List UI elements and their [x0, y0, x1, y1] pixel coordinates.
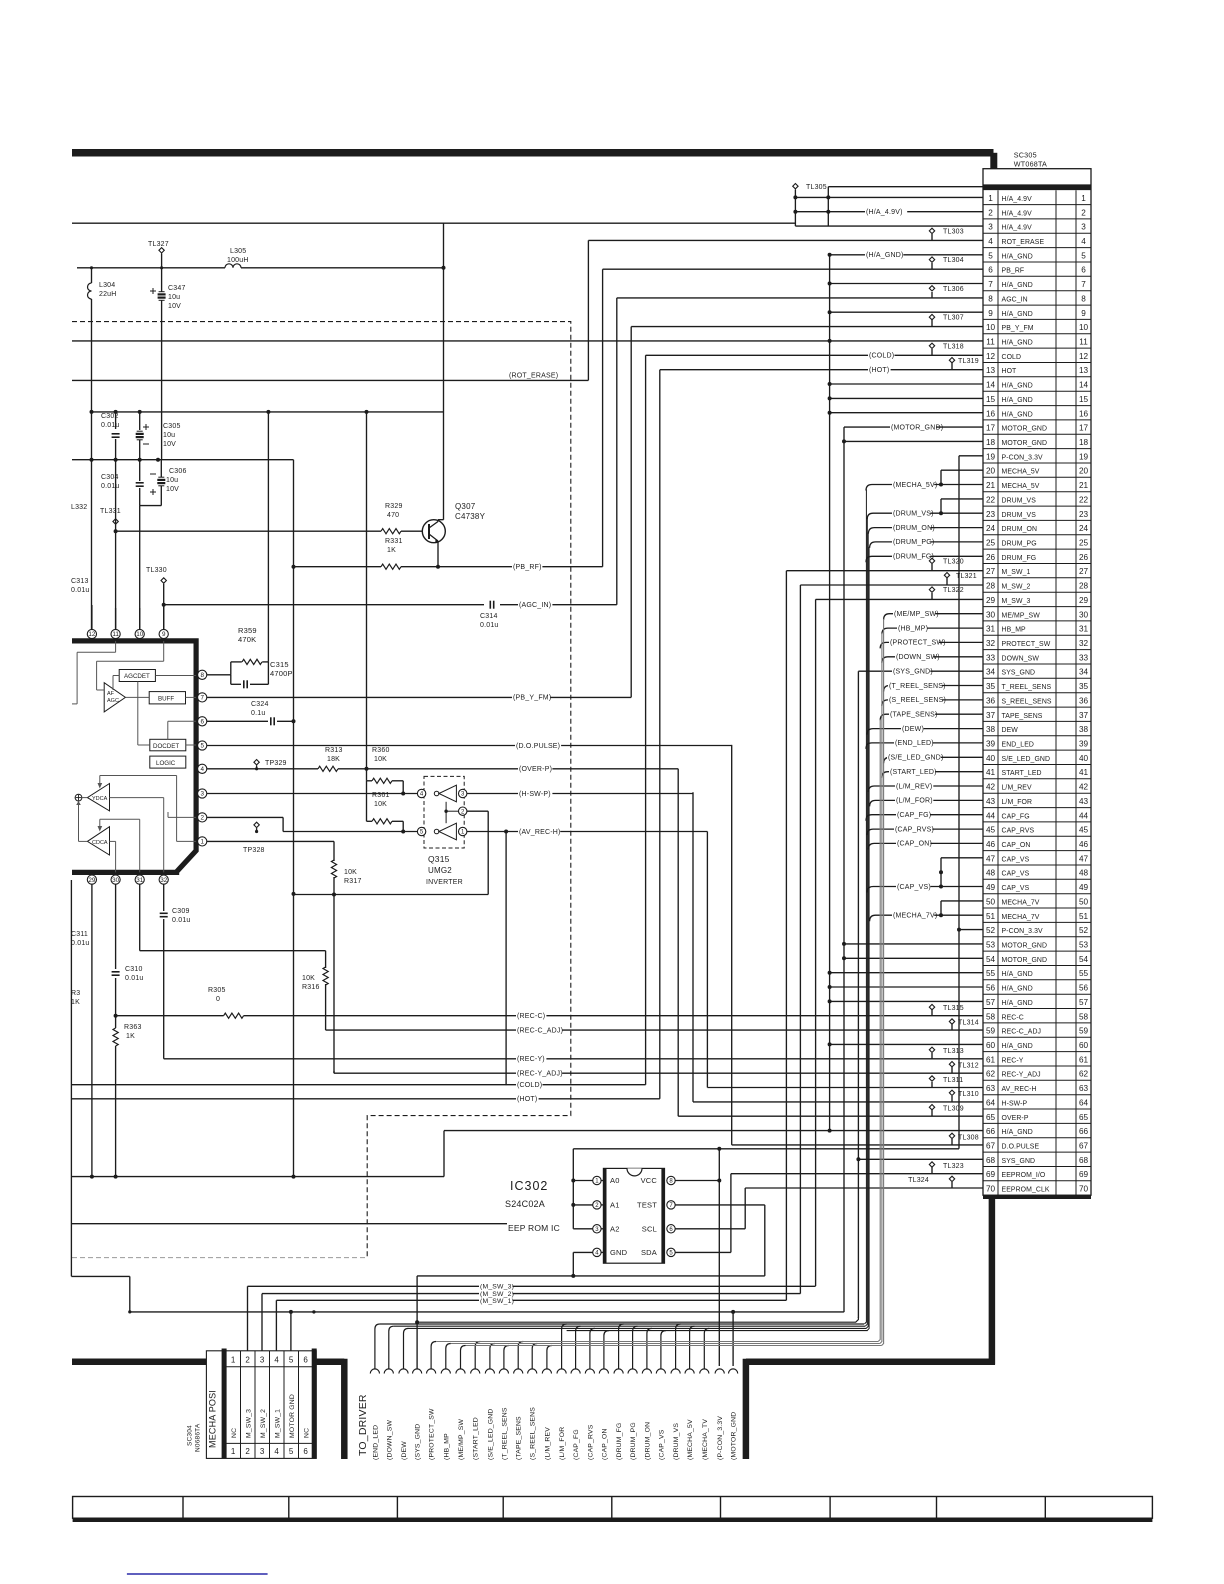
TO_DRIVER terminal DEW: [399, 1369, 408, 1374]
svg-text:(TAPE_SENS: (TAPE_SENS: [516, 1416, 523, 1460]
page border right vertical (below connector): [989, 1195, 996, 1365]
wire pin31 to R316: [139, 905, 141, 951]
svg-text:1: 1: [200, 839, 204, 846]
svg-text:7: 7: [200, 695, 204, 702]
svg-text:65: 65: [1079, 1113, 1089, 1122]
svg-text:L304: L304: [99, 282, 115, 289]
test point TL308: [949, 1133, 954, 1138]
wire pin 24 DRUM_ON: [868, 528, 983, 534]
svg-text:0.01u: 0.01u: [71, 940, 90, 947]
svg-text:H/A_4.9V: H/A_4.9V: [1002, 225, 1033, 232]
svg-text:TL330: TL330: [146, 567, 167, 574]
page border bottom horizontal (right of SC304): [313, 1359, 344, 1366]
svg-text:DRUM_VS: DRUM_VS: [1002, 512, 1037, 519]
svg-text:A2: A2: [610, 1224, 620, 1233]
wire H/A_GND bottom rail y1177: [72, 1176, 444, 1178]
IC bottom pin 31: [135, 875, 144, 884]
svg-text:5: 5: [1081, 251, 1086, 260]
svg-text:C311: C311: [71, 931, 88, 938]
IC internal amp CDCA: [87, 827, 109, 855]
svg-text:HOT: HOT: [1002, 368, 1018, 375]
IC bottom pin 30: [111, 875, 120, 884]
svg-text:13: 13: [986, 366, 996, 375]
svg-text:31: 31: [1079, 625, 1089, 634]
svg-text:(HB_MP: (HB_MP: [443, 1433, 450, 1460]
svg-text:TL312: TL312: [958, 1062, 979, 1069]
svg-text:63: 63: [1079, 1084, 1089, 1093]
wire pin 64 H-SW-P: [693, 1101, 983, 1103]
IC right pin 2: [198, 813, 207, 822]
IC bottom pin 29: [87, 875, 96, 884]
svg-text:56: 56: [986, 984, 996, 993]
svg-text:(COLD): (COLD): [869, 353, 894, 360]
wire pin 25 DRUM_PG: [870, 542, 983, 548]
IC top pin 11: [111, 629, 120, 638]
svg-text:0.01u: 0.01u: [101, 483, 120, 490]
svg-text:PROTECT_SW: PROTECT_SW: [1002, 641, 1051, 648]
svg-text:10K: 10K: [302, 975, 315, 982]
wire rail y460: [72, 459, 294, 461]
svg-text:C305: C305: [163, 423, 181, 430]
svg-text:(HOT): (HOT): [517, 1096, 537, 1103]
svg-text:TL306: TL306: [943, 286, 964, 293]
svg-text:41: 41: [1079, 768, 1089, 777]
capacitor C324: [207, 720, 268, 722]
svg-text:T_REEL_SENS: T_REEL_SENS: [1002, 684, 1052, 691]
resistor R329: [381, 529, 401, 534]
wires pins 30-33 switch signals: [884, 614, 983, 620]
wire pin 63 AV_REC-H: [707, 1087, 983, 1089]
test point TL321: [944, 573, 949, 578]
svg-text:R3: R3: [71, 990, 80, 997]
svg-text:M_SW_3: M_SW_3: [246, 1409, 253, 1438]
capacitor C314: [489, 601, 491, 609]
svg-text:59: 59: [986, 1027, 996, 1036]
svg-text:N0686TA: N0686TA: [195, 1423, 202, 1452]
capacitor C306: [160, 460, 162, 477]
svg-text:Q307: Q307: [455, 502, 476, 511]
svg-text:62: 62: [1079, 1070, 1089, 1079]
IC302 pin 8 VCC: [667, 1176, 675, 1184]
svg-text:H/A_GND: H/A_GND: [1002, 282, 1033, 289]
svg-text:38: 38: [986, 725, 996, 734]
svg-text:TO_DRIVER: TO_DRIVER: [357, 1394, 369, 1456]
svg-text:(REC-Y): (REC-Y): [517, 1056, 545, 1063]
page border left-bottom drop: [341, 1359, 348, 1459]
svg-text:L/M_REV: L/M_REV: [1002, 785, 1032, 792]
op-amp IC (hybrid video IC, left edge cut): [72, 641, 196, 873]
svg-text:R359: R359: [238, 626, 257, 635]
svg-text:TL324: TL324: [908, 1177, 929, 1184]
svg-text:Q315: Q315: [428, 854, 450, 864]
wire pin1 line: [207, 840, 334, 842]
IC302 pin 7 TEST: [667, 1201, 675, 1209]
TO_DRIVER terminal DRUM_ON: [642, 1369, 651, 1374]
svg-text:44: 44: [1079, 811, 1089, 820]
svg-text:11: 11: [1079, 338, 1088, 347]
TO_DRIVER terminal P-CON_3.3V: [715, 1369, 724, 1374]
svg-text:M_SW_2: M_SW_2: [1002, 584, 1031, 591]
wire pin 28 M_SW_2: [800, 584, 983, 586]
svg-text:(PROTECT_SW: (PROTECT_SW: [429, 1408, 436, 1460]
svg-text:(MECHA_5V: (MECHA_5V: [687, 1419, 694, 1460]
page border bottom-left horizontal (left of SC304): [72, 1359, 207, 1366]
IC302 pin 5 SDA: [667, 1248, 675, 1256]
svg-text:R313: R313: [325, 747, 343, 754]
svg-text:3: 3: [1081, 223, 1086, 232]
wire pin 11 H/A_GND long: [72, 340, 983, 342]
svg-text:5: 5: [289, 1447, 294, 1456]
svg-text:6: 6: [988, 266, 993, 275]
wire pin 18 MOTOR_GND: [844, 440, 983, 442]
svg-text:12: 12: [1079, 352, 1089, 361]
IC right pin 7: [198, 693, 207, 702]
svg-text:20: 20: [986, 467, 996, 476]
svg-text:(END_LED): (END_LED): [895, 740, 934, 747]
wire pins 1-3 H/A_4.9V group with TL305: [795, 196, 983, 198]
svg-text:4: 4: [200, 766, 204, 773]
svg-text:MOTOR GND: MOTOR GND: [289, 1394, 296, 1438]
svg-text:(REC-Y_ADJ): (REC-Y_ADJ): [517, 1071, 563, 1078]
IC internal block BUFF: [149, 692, 185, 704]
svg-text:CDCA: CDCA: [92, 840, 108, 846]
svg-text:TL327: TL327: [148, 241, 169, 248]
svg-text:(H-SW-P): (H-SW-P): [519, 791, 551, 798]
svg-text:23: 23: [1079, 510, 1089, 519]
wire H/A_GND bus vertical: [829, 255, 831, 1131]
svg-text:H/A_GND: H/A_GND: [1002, 383, 1033, 390]
wire MOTOR_GND bottom net: [130, 1311, 844, 1313]
IC internal wires: [115, 641, 117, 652]
title block table: [73, 1497, 1153, 1520]
svg-text:6: 6: [1081, 266, 1086, 275]
resistor R313: [318, 766, 338, 771]
transistor Q307: [422, 520, 445, 543]
TO_DRIVER terminal CAP_FG: [571, 1369, 580, 1374]
svg-text:(DRUM_FG): (DRUM_FG): [893, 554, 934, 561]
wire pin 26 DRUM_FG: [866, 556, 983, 562]
svg-text:C310: C310: [125, 966, 143, 973]
svg-text:(CAP_FG): (CAP_FG): [897, 812, 931, 819]
wire HOT left line: [72, 1098, 660, 1100]
svg-text:(CAP_VS): (CAP_VS): [897, 884, 931, 891]
svg-text:H/A_GND: H/A_GND: [1002, 971, 1033, 978]
svg-text:PB_Y_FM: PB_Y_FM: [1002, 325, 1034, 332]
svg-text:9: 9: [988, 309, 993, 318]
test point TL324: [949, 1176, 954, 1181]
svg-text:62: 62: [986, 1070, 996, 1079]
svg-text:(ROT_ERASE): (ROT_ERASE): [509, 373, 558, 380]
svg-text:2: 2: [245, 1355, 250, 1364]
capacitor C309: [163, 905, 165, 911]
wire SYS_GND staircase: [417, 1317, 858, 1322]
test point TP328: [254, 822, 259, 827]
svg-text:47: 47: [986, 854, 996, 863]
svg-text:65: 65: [986, 1113, 996, 1122]
svg-text:L332: L332: [71, 504, 87, 511]
IC right pin 1: [198, 837, 207, 846]
svg-text:41: 41: [986, 768, 996, 777]
svg-text:36: 36: [986, 697, 996, 706]
svg-text:21: 21: [1079, 481, 1089, 490]
svg-text:45: 45: [986, 826, 996, 835]
svg-text:EEPROM_I/O: EEPROM_I/O: [1002, 1172, 1046, 1179]
svg-text:ME/MP_SW: ME/MP_SW: [1002, 612, 1041, 619]
svg-text:(T_REEL_SENS: (T_REEL_SENS: [501, 1407, 508, 1460]
svg-text:MECHA_7V: MECHA_7V: [1002, 914, 1040, 921]
wire R360 to inverter pin4: [402, 781, 404, 794]
svg-text:H/A_GND: H/A_GND: [1002, 1000, 1033, 1007]
svg-text:GND: GND: [610, 1248, 628, 1257]
svg-text:PB_RF: PB_RF: [1002, 268, 1025, 275]
svg-text:VCC: VCC: [641, 1176, 658, 1185]
TO_DRIVER terminal MECHA_TV: [700, 1369, 709, 1374]
svg-text:48: 48: [1079, 869, 1089, 878]
wire pin 34 SYS_GND: [858, 670, 983, 672]
svg-text:(MOTOR_GND): (MOTOR_GND): [891, 424, 943, 431]
TO_DRIVER terminal T_REEL_SENS: [499, 1369, 508, 1374]
inductor L305: [77, 267, 225, 269]
TO_DRIVER terminal CAP_VS: [656, 1369, 665, 1374]
svg-text:(START_LED): (START_LED): [890, 769, 937, 776]
svg-text:(DRUM_VS: (DRUM_VS: [673, 1423, 680, 1460]
svg-text:58: 58: [1079, 1012, 1089, 1021]
svg-text:0.01u: 0.01u: [101, 422, 120, 429]
IC IC302 EEPROM body: [603, 1168, 664, 1263]
svg-text:14: 14: [1079, 381, 1089, 390]
svg-text:TP328: TP328: [243, 847, 265, 854]
svg-text:(P-CON_3.3V: (P-CON_3.3V: [717, 1416, 724, 1460]
svg-text:AGC: AGC: [107, 698, 119, 704]
wire pin 13 HOT: [660, 369, 983, 371]
IC bottom pin 32: [159, 875, 168, 884]
svg-text:EEP ROM IC: EEP ROM IC: [508, 1223, 560, 1233]
svg-text:LOGIC: LOGIC: [156, 760, 176, 767]
IC302 pin 4 GND: [593, 1248, 601, 1256]
IC internal amp AF AGC: [104, 683, 125, 712]
svg-text:TL322: TL322: [943, 587, 964, 594]
wire pin 58 REC-C long: [116, 1015, 224, 1017]
svg-text:19: 19: [1079, 452, 1089, 461]
svg-text:4: 4: [988, 237, 993, 246]
svg-text:15: 15: [986, 395, 996, 404]
svg-text:(REC-C): (REC-C): [517, 1013, 545, 1020]
IC302 pin 2 A1: [593, 1201, 601, 1209]
svg-text:DOCDET: DOCDET: [153, 743, 179, 750]
wire gray bundle (group B): [436, 1341, 878, 1343]
wires pins 47-49 CAP_VS bridge: [941, 857, 983, 859]
svg-text:(DRUM_FG: (DRUM_FG: [616, 1423, 623, 1460]
svg-text:20: 20: [1079, 467, 1089, 476]
TO_DRIVER terminal L/M_REV: [542, 1369, 551, 1374]
resistor R360: [367, 780, 373, 782]
svg-text:H/A_4.9V: H/A_4.9V: [1002, 196, 1033, 203]
wire C304/C306 junction: [140, 505, 162, 507]
svg-text:(DRUM_PG: (DRUM_PG: [630, 1422, 637, 1460]
dashed boundary lower-left segment: [72, 1257, 367, 1259]
svg-text:4: 4: [274, 1447, 279, 1456]
svg-text:C324: C324: [251, 701, 269, 708]
svg-text:MOTOR_GND: MOTOR_GND: [1002, 426, 1048, 433]
svg-text:26: 26: [986, 553, 996, 562]
svg-text:57: 57: [1079, 998, 1089, 1007]
svg-text:S_REEL_SENS: S_REEL_SENS: [1002, 699, 1052, 706]
wire pin 29 M_SW_3: [816, 598, 983, 600]
svg-text:(S/E_LED_GND: (S/E_LED_GND: [487, 1408, 494, 1460]
svg-text:19: 19: [986, 452, 996, 461]
svg-text:32: 32: [1079, 639, 1089, 648]
svg-text:8: 8: [1081, 295, 1086, 304]
svg-text:REC-Y_ADJ: REC-Y_ADJ: [1002, 1072, 1041, 1079]
wires pins 35-37 sensor signals: [884, 686, 983, 692]
svg-text:30: 30: [112, 877, 120, 884]
svg-text:22: 22: [1079, 496, 1089, 505]
svg-text:H/A_GND: H/A_GND: [1002, 1043, 1033, 1050]
wires pins 42-46 loading/capstan signals: [868, 786, 983, 792]
wires TO_DRIVER group A hooks (END_LED,DOWN_SW,DEW): [375, 1324, 380, 1369]
svg-text:(HOT): (HOT): [869, 367, 889, 374]
wire inverter out3 H-SW-P: [467, 793, 693, 795]
svg-text:SC305: SC305: [1014, 151, 1037, 160]
svg-text:INVERTER: INVERTER: [426, 879, 463, 886]
wire pin2 line jog: [207, 816, 283, 818]
svg-text:38: 38: [1079, 725, 1089, 734]
resistor R316: [323, 967, 328, 985]
wire pin 67 D.O.PULSE: [732, 1144, 983, 1146]
TO_DRIVER terminal DOWN_SW: [384, 1369, 393, 1374]
wire MOTOR_GND bus vertical: [843, 427, 845, 1312]
test point TL310: [949, 1090, 954, 1095]
svg-text:43: 43: [1079, 797, 1089, 806]
wires pins 22-23 DRUM_VS bridge: [941, 498, 983, 500]
svg-text:TEST: TEST: [637, 1200, 657, 1209]
svg-text:SCL: SCL: [642, 1224, 657, 1233]
svg-text:SC304: SC304: [187, 1425, 194, 1446]
svg-text:42: 42: [986, 783, 996, 792]
wire bundle group A/C horizontals: [380, 1323, 864, 1325]
svg-text:(PB_Y_FM): (PB_Y_FM): [513, 695, 551, 702]
svg-text:DRUM_VS: DRUM_VS: [1002, 498, 1037, 505]
svg-text:2: 2: [245, 1447, 250, 1456]
IC internal block DOCDET: [150, 739, 186, 751]
svg-text:M_SW_2: M_SW_2: [260, 1409, 267, 1438]
TO_DRIVER terminal L/M_FOR: [557, 1369, 566, 1374]
svg-text:(L/M_FOR: (L/M_FOR: [559, 1427, 566, 1460]
svg-text:EEPROM_CLK: EEPROM_CLK: [1002, 1187, 1050, 1194]
svg-text:C309: C309: [172, 908, 190, 915]
wire M_SW_1 net: [275, 1300, 277, 1351]
IC right pin 4: [198, 764, 207, 773]
inverter gate A: [417, 789, 425, 797]
svg-text:56: 56: [1079, 984, 1089, 993]
svg-text:28: 28: [986, 582, 996, 591]
svg-text:50: 50: [986, 897, 996, 906]
svg-text:A0: A0: [610, 1176, 620, 1185]
svg-text:35: 35: [1079, 682, 1089, 691]
svg-text:C306: C306: [169, 468, 187, 475]
test point TP329: [254, 760, 259, 765]
IC internal block LOGIC: [150, 756, 186, 768]
TO_DRIVER terminal ME/MP_SW: [456, 1369, 465, 1374]
svg-text:H/A_GND: H/A_GND: [1002, 397, 1033, 404]
svg-text:10V: 10V: [168, 303, 181, 310]
test point TL304: [929, 257, 934, 262]
TO_DRIVER terminal S/E_LED_GND: [485, 1369, 494, 1374]
svg-text:470: 470: [387, 512, 399, 519]
svg-text:AV_REC-H: AV_REC-H: [1002, 1086, 1037, 1093]
svg-text:(ME/MP_SW): (ME/MP_SW): [894, 611, 939, 618]
svg-text:57: 57: [986, 998, 996, 1007]
wire Q307 emitter to PB_RF: [437, 543, 439, 567]
test point TL314: [949, 1019, 954, 1024]
svg-text:H/A_GND: H/A_GND: [1002, 340, 1033, 347]
wire pin 17 MOTOR_GND: [844, 426, 983, 428]
IC internal amp YDCA: [87, 784, 109, 811]
test point TL309: [929, 1105, 934, 1110]
svg-text:69: 69: [1079, 1170, 1089, 1179]
svg-text:61: 61: [1079, 1055, 1089, 1064]
svg-text:CAP_RVS: CAP_RVS: [1002, 828, 1035, 835]
svg-text:33: 33: [1079, 653, 1089, 662]
wire SYS_GND terminal riser: [416, 1276, 418, 1369]
svg-text:AF: AF: [107, 691, 115, 697]
svg-text:D.O.PULSE: D.O.PULSE: [1002, 1144, 1040, 1151]
svg-text:(H/A_GND): (H/A_GND): [866, 252, 904, 259]
svg-text:42: 42: [1079, 783, 1089, 792]
svg-text:7: 7: [1081, 280, 1086, 289]
svg-text:YDCA: YDCA: [92, 796, 108, 802]
resistor R331: [381, 564, 401, 569]
svg-text:2: 2: [988, 208, 993, 217]
svg-text:(DRUM_PG): (DRUM_PG): [893, 539, 934, 546]
svg-text:68: 68: [986, 1156, 996, 1165]
IC top pin 9: [159, 629, 168, 638]
wire IC302 TEST to SYS_GND: [675, 1204, 765, 1206]
TO_DRIVER terminal PROTECT_SW: [427, 1369, 436, 1374]
wire pin 27 M_SW_1: [786, 570, 983, 572]
svg-text:TL313: TL313: [943, 1048, 964, 1055]
svg-text:8: 8: [200, 672, 204, 679]
svg-text:IC302: IC302: [510, 1179, 548, 1193]
svg-text:(S/E_LED_GND): (S/E_LED_GND): [888, 755, 944, 762]
page border right vertical (top, behind connector): [990, 153, 997, 172]
svg-text:P-CON_3.3V: P-CON_3.3V: [1002, 928, 1044, 935]
svg-text:(H/A_4.9V): (H/A_4.9V): [866, 209, 903, 216]
svg-text:R317: R317: [344, 878, 362, 885]
wire OVER-P label: [518, 766, 552, 773]
svg-text:18K: 18K: [327, 756, 340, 763]
svg-text:(AGC_IN): (AGC_IN): [519, 602, 551, 609]
svg-text:23: 23: [986, 510, 996, 519]
svg-text:24: 24: [986, 524, 996, 533]
wire vertical x366.5: [366, 412, 368, 781]
svg-text:CAP_ON: CAP_ON: [1002, 842, 1031, 849]
test point TL312: [949, 1062, 954, 1067]
svg-text:55: 55: [986, 969, 996, 978]
TO_DRIVER terminal DRUM_FG: [614, 1369, 623, 1374]
svg-text:(D.O.PULSE): (D.O.PULSE): [516, 743, 560, 750]
wire ROT_ERASE line: [72, 379, 588, 381]
TO_DRIVER terminal HB_MP: [441, 1369, 450, 1374]
wire pin 70 EEPROM_CLK: [745, 1187, 983, 1189]
TO_DRIVER terminal DRUM_PG: [628, 1369, 637, 1374]
svg-text:REC-C: REC-C: [1002, 1014, 1024, 1021]
svg-text:SYS_GND: SYS_GND: [1002, 1158, 1036, 1165]
svg-text:48: 48: [986, 869, 996, 878]
svg-text:(ME/MP_SW: (ME/MP_SW: [458, 1419, 465, 1460]
resistor R363: [115, 1016, 117, 1028]
svg-text:MOTOR_GND: MOTOR_GND: [1002, 957, 1048, 964]
